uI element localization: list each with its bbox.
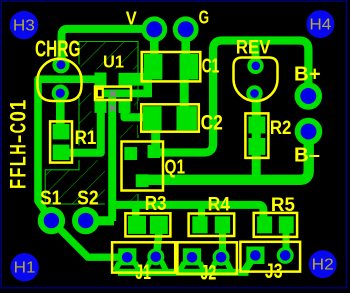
pad R4 left [192, 216, 207, 233]
resistor R5 outline [254, 213, 297, 237]
ground pour hatch region [45, 42, 138, 205]
pad B+ [295, 82, 323, 110]
wire R4 right pad to J2 right pad [219, 232, 226, 252]
pad B- [295, 118, 323, 146]
svg-text:CHRG: CHRG [35, 36, 81, 62]
pad CHRG bottom [52, 85, 69, 102]
hole REV top [252, 62, 261, 71]
pad Q1 top-left [124, 147, 137, 160]
hole B- [301, 124, 317, 140]
wire REV top pad stem [252, 41, 260, 67]
svg-text:J2: J2 [201, 262, 217, 285]
hole B+ [300, 88, 316, 104]
via X marker 2 [110, 105, 116, 111]
wire G pad stem to C1 right pad [181, 29, 190, 60]
clearance Q1 body [118, 138, 142, 194]
thermal legs J1 right pad [146, 261, 166, 270]
wire B- bus from Q1 to B- pad [142, 132, 309, 180]
svg-text:C: C [6, 123, 31, 134]
pad R3 right [150, 216, 168, 234]
pour clearance around traces and components [38, 79, 146, 205]
hole S1 [44, 213, 59, 228]
wire S1 pad diagonal to J1 left pad [51, 221, 122, 258]
hole G [178, 21, 194, 37]
pad U1 pin 4 top-left [95, 73, 107, 86]
pad C2 left [143, 106, 162, 130]
pad U1 pin 1 bottom-left [95, 100, 107, 113]
pad R4 right [215, 216, 230, 233]
thermal legs J2 right pad [211, 262, 231, 271]
wire C1 right pad to C2 right pad [180, 70, 189, 110]
wire S2 pad stub to vertical B [88, 216, 114, 225]
pad J2 pin1 square [183, 248, 201, 265]
connector J2 outline [177, 242, 237, 273]
svg-text:U1: U1 [103, 52, 124, 72]
clearance S2 pad [68, 203, 103, 238]
wire R3 right pad to J1 right pad [157, 232, 159, 250]
wire J3 left pad diagonal to bus [245, 259, 253, 272]
svg-text:R3: R3 [145, 192, 167, 215]
wire J bottom bus [118, 269, 249, 276]
thermal legs J1 left pad [115, 263, 140, 272]
thermal legs J2 left pad [180, 263, 205, 272]
pad C1 left [144, 54, 163, 80]
pad R5 left [257, 216, 272, 233]
svg-text:Q1: Q1 [165, 157, 186, 179]
pad CHRG top [52, 56, 69, 73]
svg-text:C2: C2 [201, 112, 223, 135]
hole REV bottom [250, 89, 259, 98]
svg-text:H1: H1 [14, 260, 36, 277]
svg-text:H2: H2 [312, 256, 334, 273]
pad V [141, 16, 167, 42]
wire R1 bottom pad to U1 pin via corner [68, 101, 101, 153]
wire stub to R3 left pad [132, 206, 140, 218]
transistor Q1 outline [122, 142, 164, 191]
svg-text:0: 0 [6, 111, 31, 122]
svg-text:R4: R4 [208, 195, 231, 216]
clearance R1 body [47, 118, 75, 165]
svg-text:B+: B+ [294, 64, 321, 86]
mounting hole H4 [306, 10, 334, 38]
wire net vertical B from via down to resistor bus [112, 93, 263, 220]
wire stub to R4 left pad [198, 206, 205, 218]
resistor R3 outline [125, 213, 170, 236]
resistor R2 outline [245, 113, 268, 157]
label FFLH-C01 board name [6, 100, 31, 189]
pad S2 [72, 207, 99, 234]
connector J1 outline [112, 242, 175, 272]
svg-text:F: F [6, 168, 31, 178]
wire C1 left pad stem down [143, 68, 152, 97]
wire V pad stem to C1 left pad [150, 29, 159, 60]
svg-text:B–: B– [294, 145, 320, 167]
wire vertical B lower stub to S2 level [108, 200, 116, 221]
pad J2 pin2 round [213, 249, 230, 266]
hole J2 pin2 [216, 252, 227, 263]
pad G [173, 16, 199, 42]
hole S2 [78, 213, 93, 228]
wire CHRG emitter to R1 top pad [56, 92, 65, 130]
wire U1 through trace to C1 stem [103, 90, 148, 98]
pad J3 pin1 square [246, 247, 264, 265]
hole V [146, 21, 162, 37]
pad R3 left [128, 216, 146, 234]
pad REV top [247, 58, 263, 74]
pad S1 [38, 207, 65, 234]
hole J3 pin1 [250, 250, 261, 261]
wire CHRG collector to V pad [62, 29, 153, 66]
connector J3 outline [240, 242, 300, 272]
pad C1 right [180, 54, 199, 80]
svg-text:J3: J3 [265, 260, 283, 283]
svg-text:R2: R2 [270, 117, 292, 139]
svg-text:-: - [6, 134, 31, 143]
wire C2 left pad to Q1 gate stem [151, 128, 160, 148]
pad R1 top [53, 124, 70, 139]
svg-text:S1: S1 [40, 187, 61, 210]
pad R1 bottom [53, 145, 70, 160]
svg-text:L: L [6, 156, 31, 166]
pad U1 pin 3 top-right with extension to C1 [119, 73, 150, 86]
resistor R1 outline [50, 121, 72, 162]
mounting hole H2 [309, 250, 337, 278]
transistor REV outline [234, 58, 278, 102]
hole J1 pin2 [151, 251, 162, 262]
via X marker 1 [110, 91, 116, 97]
svg-text:J1: J1 [135, 261, 151, 284]
pad R5 right [279, 216, 294, 233]
wire REV bottom pad through R2 to bus [252, 93, 261, 179]
clearance U1 body [92, 70, 135, 117]
svg-text:REV: REV [236, 38, 271, 59]
pad J3 pin2 round [277, 247, 294, 264]
pad R2 top [248, 117, 265, 134]
pad U1 pin 2 bottom-right [119, 100, 131, 113]
svg-text:F: F [6, 179, 31, 189]
pad Q1 top-right [148, 145, 161, 158]
clearance C2 left [138, 101, 146, 135]
pad Q1 bottom [136, 174, 149, 187]
hole J1 pin1 [122, 252, 133, 263]
wire Q1 to REV and B+ long trace [157, 41, 308, 153]
svg-text:1: 1 [6, 100, 31, 111]
hole J2 pin1 [187, 252, 198, 263]
IC U1 outline [95, 87, 131, 100]
svg-text:H: H [6, 144, 31, 155]
transistor CHRG outline [38, 59, 82, 101]
capacitor C1 outline [142, 52, 201, 81]
pad J1 pin1 square [118, 248, 136, 265]
svg-text:S2: S2 [77, 187, 99, 210]
pad REV bottom [246, 85, 262, 101]
clearance CHRG body [35, 55, 85, 105]
hole J3 pin2 [280, 250, 291, 261]
capacitor C2 outline [141, 104, 199, 131]
svg-text:R5: R5 [271, 194, 295, 216]
resistor R4 outline [189, 214, 235, 237]
svg-text:H4: H4 [309, 16, 331, 33]
mounting hole H1 [10, 253, 38, 281]
svg-text:C1: C1 [202, 56, 220, 78]
IC U1 pin1 marker [97, 89, 103, 98]
svg-text:V: V [126, 8, 137, 28]
hole CHRG top [57, 60, 66, 69]
pad C2 right [177, 106, 197, 130]
svg-text:H3: H3 [13, 17, 35, 34]
hole CHRG bottom [56, 89, 65, 98]
wire U1 pin to C2 left pad elbow [125, 100, 147, 117]
mounting hole H3 [10, 11, 38, 39]
wire R5 right pad to J3 right pad [283, 232, 290, 250]
pad R2 bottom [248, 138, 265, 155]
svg-text:R1: R1 [75, 127, 97, 149]
pad J1 pin2 round [147, 248, 164, 265]
wire CHRG base horizontal + left vertical + diagonal to S1 [38, 79, 100, 220]
svg-text:G: G [199, 8, 210, 28]
